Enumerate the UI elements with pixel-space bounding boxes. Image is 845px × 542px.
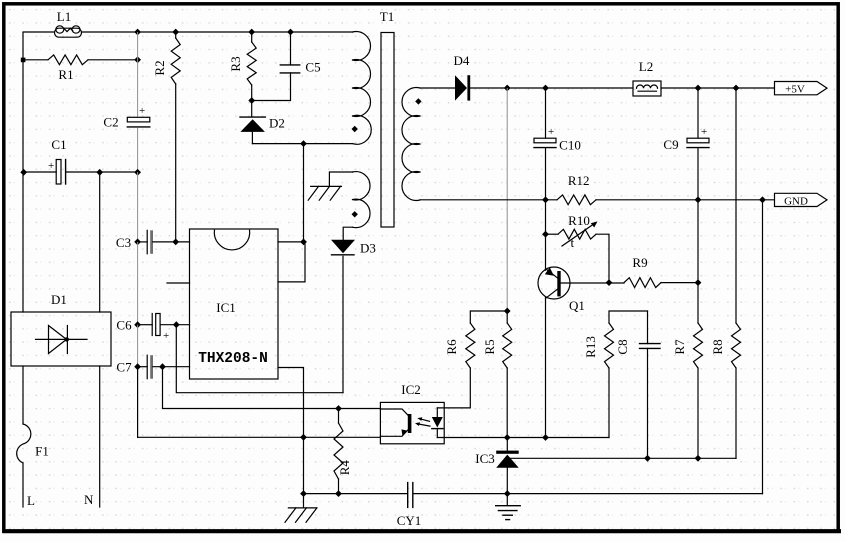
wire: x303 rail from primary bottom to pinA node (303, 144, 305, 242)
transformer T1 primary polarity dot (352, 126, 358, 132)
wire: GND flag rail down to secondary ground (762, 200, 764, 494)
node dot R3-C5 junction (248, 97, 255, 104)
optocoupler IC2 (380, 382, 444, 444)
variable resistor R10 (546, 213, 598, 250)
wire: R10 right to base line (596, 234, 609, 282)
node dot top rail x290 (287, 29, 294, 36)
node dot R1 right (134, 56, 141, 63)
fuse F1 (17, 424, 49, 463)
wire: GND line from secondary bottom (420, 199, 557, 201)
IC2 LED (436, 408, 438, 417)
svg-text:C3: C3 (116, 235, 131, 250)
wire: left rail x23 down to bridge (22, 60, 24, 312)
node dot +5V rail x507 (504, 85, 511, 92)
resistor R8 (710, 323, 741, 458)
node dot R4 bottom (335, 490, 342, 497)
diode D3 (331, 240, 376, 256)
wire: C1 line y172 (23, 171, 56, 173)
IC2 phototransistor (380, 409, 408, 416)
wire: rail x137 C7 down to ground line corner (137, 367, 139, 438)
resistor R4 (334, 409, 352, 494)
svg-text:D4: D4 (454, 53, 470, 68)
node dot y493.6 x507 (504, 490, 511, 497)
svg-text:T1: T1 (380, 9, 394, 24)
node dot top rail x175 (172, 29, 179, 36)
transformer T1 aux winding (353, 172, 371, 228)
svg-text:R7: R7 (672, 339, 687, 355)
transformer T1 core (381, 33, 394, 228)
output flag +5V (775, 82, 828, 96)
wire: top rail L1 to transformer primary (82, 31, 353, 33)
svg-text:IC1: IC1 (216, 300, 236, 315)
IC2 light arrows (421, 419, 430, 421)
resistor R9 (624, 255, 661, 288)
node dot R6/R5 link (504, 308, 511, 315)
resistor R7 (672, 323, 703, 458)
svg-text:+: + (548, 126, 554, 138)
svg-text:C8: C8 (615, 339, 630, 354)
wire: R9 right to x698 rail (661, 282, 698, 284)
svg-text:R1: R1 (58, 67, 73, 82)
wire: R5 +5V rail down to R6 junction (506, 88, 508, 311)
node dot GND x545 (542, 196, 549, 203)
transformer T1 secondary winding (402, 88, 420, 201)
svg-text:CY1: CY1 (397, 513, 422, 528)
resistor R1 (24, 55, 138, 82)
svg-text:THX208-N: THX208-N (198, 351, 268, 367)
wire: primary ground line y437.3 (138, 436, 380, 438)
svg-text:+: + (701, 126, 707, 138)
node dot GND x762 (759, 196, 766, 203)
svg-text:D2: D2 (269, 116, 285, 131)
inductor L2 (633, 59, 661, 96)
node dot C3 left (134, 239, 141, 246)
wire: rail x137 C1 to C3 (137, 172, 139, 242)
capacitor C10 (534, 88, 581, 200)
node dot C6 right (173, 321, 180, 328)
diode D4 (420, 53, 633, 101)
wire: x698 rail GND to R7 (697, 200, 699, 323)
resistor R6 (444, 311, 507, 368)
wire: N rail below bridge to terminal (99, 366, 101, 507)
wire: R2 bottom to C3 line (175, 84, 177, 242)
svg-text:+: + (163, 330, 169, 342)
wire: IC1 right pin A to x303 (278, 241, 304, 243)
node dot C6 left (134, 321, 141, 328)
svg-text:C6: C6 (116, 318, 132, 333)
transformer T1 aux polarity dot (352, 211, 358, 217)
node dot R10 left (542, 231, 549, 238)
node dot R9 right (695, 279, 702, 286)
wire: top rail left corner to L1 (23, 32, 54, 60)
wire: Q1 collector down to y437.5 (545, 298, 547, 438)
svg-text:C7: C7 (116, 360, 132, 375)
resistor R12 (557, 173, 596, 205)
svg-text:C1: C1 (51, 137, 66, 152)
svg-text:GND: GND (784, 195, 808, 207)
wire: L rail to terminal (22, 463, 24, 507)
svg-text:R5: R5 (482, 339, 497, 354)
svg-text:R12: R12 (568, 173, 590, 188)
wire: Y-cap line y493.6 (304, 493, 407, 495)
resistor R2 (152, 32, 180, 84)
capacitor C6 (116, 314, 189, 343)
capacitor C3 (116, 230, 190, 254)
node dot primary bottom x303 (300, 140, 307, 147)
capacitor C5 (252, 32, 321, 101)
node dot y437.5 x545 (542, 434, 549, 441)
svg-text:C5: C5 (305, 60, 320, 75)
wire: VDD line y392.7 to C6 node (176, 325, 343, 393)
svg-text:R13: R13 (583, 336, 598, 358)
node dot ref x698 (695, 455, 702, 462)
svg-text:R2: R2 (152, 60, 167, 75)
wire: aux top to chassis ground (329, 172, 352, 186)
svg-text:R10: R10 (568, 213, 590, 228)
wire: C7 node down to opto collector line (163, 367, 381, 409)
node dot +5V rail x736 (733, 85, 740, 92)
svg-text:L1: L1 (57, 9, 71, 24)
junction square R1 left (21, 58, 26, 63)
node dot R4 top (335, 405, 342, 412)
wire: IC1 right pin C to primary ground rail (278, 368, 304, 494)
wire: GND line R12 to flag (596, 199, 774, 201)
node dot +5V rail x698 (695, 85, 702, 92)
wire: +5V rail L2 to flag (661, 87, 774, 89)
resistor R13 (583, 311, 648, 438)
svg-text:D3: D3 (360, 240, 376, 255)
op-amp/controller IC1 box (190, 229, 279, 379)
node dot C3 right (R2) (172, 239, 179, 246)
diode D2 (240, 116, 285, 144)
capacitor C7 (116, 355, 189, 379)
capacitor C9 (663, 88, 709, 200)
svg-text:R3: R3 (228, 56, 243, 71)
svg-text:IC3: IC3 (475, 451, 495, 466)
svg-text:C2: C2 (103, 115, 118, 130)
inductor L1 (55, 9, 82, 37)
svg-text:+: + (48, 160, 54, 172)
svg-text:R6: R6 (444, 339, 459, 355)
svg-text:F1: F1 (35, 444, 49, 459)
wire: LED cathode line y437.5 (437, 437, 609, 439)
transformer T1 secondary polarity dot (415, 98, 421, 104)
svg-text:R4: R4 (337, 460, 352, 476)
wire: IC1 right pin B U-link (278, 242, 305, 282)
svg-text:t: t (571, 235, 575, 250)
chassis ground (primary, below x303) (285, 494, 317, 523)
wire: R8 rail from +5V down across GND line (735, 88, 737, 323)
capacitor CY1 (397, 483, 422, 528)
wire: IC3 ref line y458.3 (510, 457, 736, 459)
node dot C7 left (134, 363, 141, 370)
node dot C1 left (20, 169, 27, 176)
svg-text:Q1: Q1 (569, 298, 585, 313)
node dot C1 right (134, 169, 141, 176)
svg-text:C10: C10 (559, 138, 581, 153)
bridge rectifier D1 (11, 292, 111, 366)
wire: LED anode from R6 (437, 368, 470, 408)
wire: aux bottom to D3 (343, 227, 352, 240)
wire: x545 GND to R10 node (545, 200, 547, 234)
shunt regulator IC3 (475, 438, 518, 494)
svg-text:R8: R8 (710, 339, 725, 354)
wire: L rail below bridge (22, 366, 24, 424)
node dot top rail x137 (134, 29, 141, 36)
resistor R5 (482, 311, 512, 438)
transistor Q1 (538, 234, 585, 313)
node dot +5V rail x545 (542, 85, 549, 92)
wire: rail x137 C3 to C6 (137, 242, 139, 325)
svg-text:L: L (27, 493, 35, 508)
node dot ref x647 (644, 455, 651, 462)
node dot C1 N-rail (96, 169, 103, 176)
wire: rail x137 C6 to C7 (137, 325, 139, 367)
wire: C2 to C1 line (137, 128, 139, 172)
wire: rail x137 top to C2 (137, 32, 139, 117)
svg-text:D1: D1 (51, 292, 67, 307)
node dot y437.5 x507 (504, 434, 511, 441)
resistor R3 (228, 32, 256, 116)
node dot x303 pinA (300, 239, 307, 246)
capacitor C2 (103, 105, 149, 130)
chassis ground (aux winding) (308, 186, 341, 200)
node dot C7 right (159, 363, 166, 370)
svg-text:+: + (139, 105, 145, 117)
svg-text:IC2: IC2 (401, 382, 421, 397)
capacitor C8 (615, 311, 660, 458)
capacitor C1 (48, 137, 67, 184)
earth ground (IC3) (496, 494, 521, 520)
node dot x303 CY1 line (300, 490, 307, 497)
transformer T1 primary winding (353, 32, 372, 145)
node dot top rail x251 (248, 29, 255, 36)
svg-text:N: N (84, 492, 94, 507)
wire: Q1 base line (561, 282, 624, 284)
node dot x303 ground line (300, 434, 307, 441)
svg-text:L2: L2 (639, 59, 653, 74)
wire: primary bottom rail y143.6 (252, 143, 352, 145)
pin stub IC1 left (NC) (167, 282, 190, 284)
output flag GND (775, 193, 828, 207)
svg-text:C9: C9 (663, 137, 678, 152)
wire: N rail x99 down to bridge (99, 172, 101, 312)
svg-text:+5V: +5V (785, 84, 805, 96)
node dot base x609 (606, 279, 613, 286)
wire: D3 cathode down to VDD line (342, 256, 344, 392)
node dot GND x698 (695, 196, 702, 203)
svg-text:R9: R9 (632, 255, 647, 270)
